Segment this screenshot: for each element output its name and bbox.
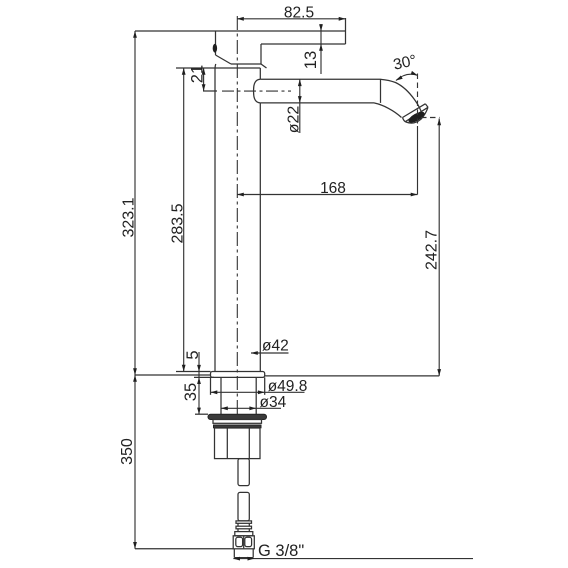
svg-text:168: 168: [320, 180, 346, 197]
svg-text:ø42: ø42: [262, 338, 289, 355]
svg-text:323.1: 323.1: [121, 197, 138, 237]
svg-text:ø22: ø22: [286, 106, 303, 134]
svg-text:G 3/8": G 3/8": [258, 542, 304, 560]
svg-text:350: 350: [119, 438, 136, 465]
svg-text:ø34: ø34: [260, 394, 287, 411]
svg-text:35: 35: [182, 383, 200, 401]
svg-text:283.5: 283.5: [170, 203, 187, 243]
svg-text:242.7: 242.7: [424, 230, 441, 270]
svg-text:21: 21: [189, 65, 207, 83]
svg-text:5: 5: [184, 350, 202, 359]
svg-text:ø49.8: ø49.8: [268, 378, 308, 395]
svg-text:13: 13: [302, 51, 320, 69]
svg-text:82.5: 82.5: [284, 4, 314, 21]
